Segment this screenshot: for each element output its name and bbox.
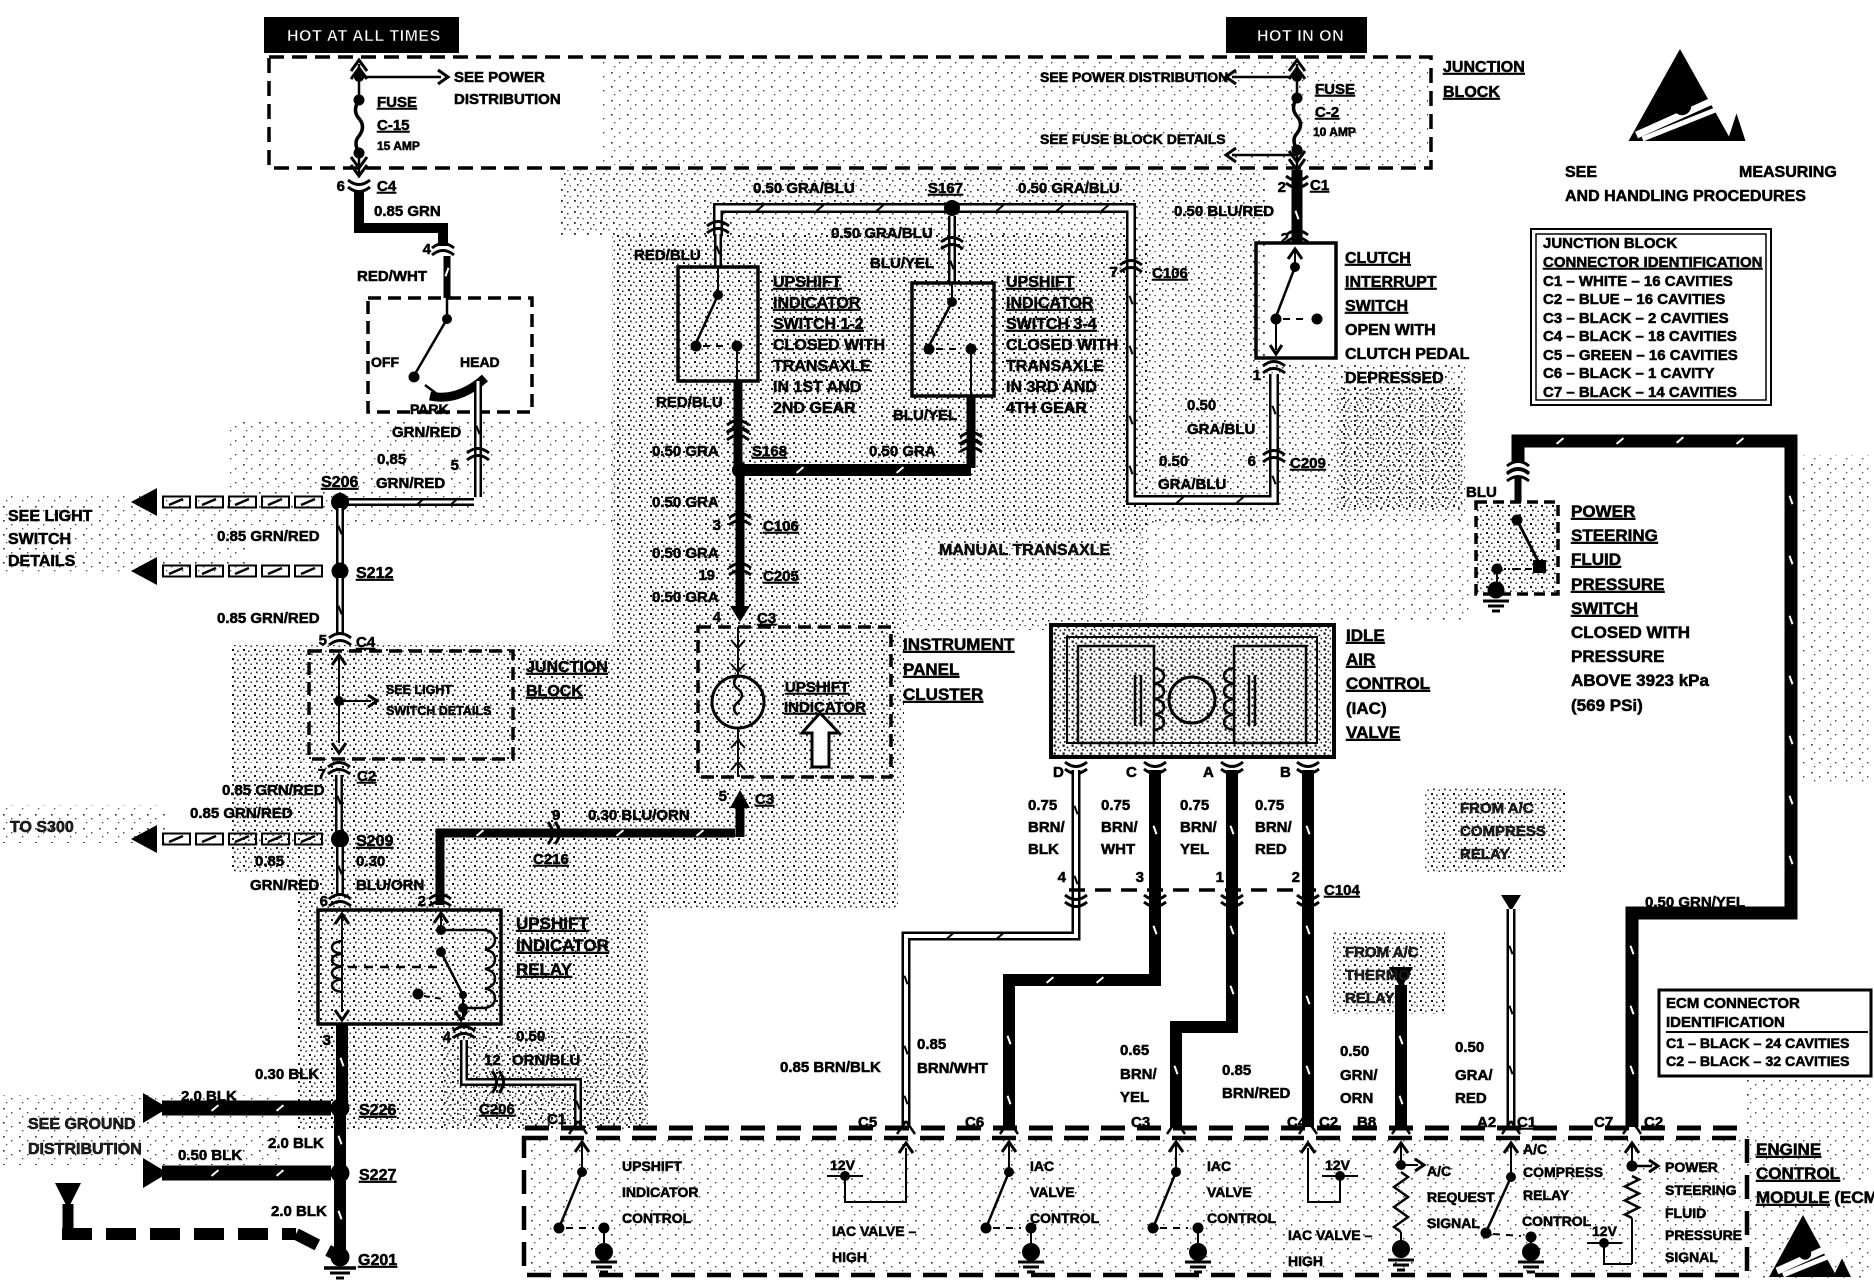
svg-text:C206: C206 bbox=[479, 1101, 515, 1118]
svg-text:JUNCTION: JUNCTION bbox=[526, 659, 608, 676]
svg-text:10 AMP: 10 AMP bbox=[1313, 125, 1356, 139]
svg-text:C106: C106 bbox=[763, 518, 799, 535]
svg-text:GRN/RED: GRN/RED bbox=[392, 424, 461, 441]
svg-text:SEE POWER DISTRIBUTION: SEE POWER DISTRIBUTION bbox=[1040, 69, 1228, 85]
svg-text:IN 1ST AND: IN 1ST AND bbox=[773, 379, 861, 396]
svg-text:0.85: 0.85 bbox=[917, 1036, 946, 1053]
svg-text:INSTRUMENT: INSTRUMENT bbox=[903, 635, 1015, 654]
svg-text:INTERRUPT: INTERRUPT bbox=[1345, 274, 1437, 291]
svg-text:C4 – BLACK – 18 CAVITIES: C4 – BLACK – 18 CAVITIES bbox=[1543, 328, 1737, 345]
svg-text:1: 1 bbox=[1216, 869, 1224, 886]
svg-text:2.0 BLK: 2.0 BLK bbox=[181, 1088, 237, 1105]
svg-text:UPSHIFT: UPSHIFT bbox=[785, 679, 849, 696]
svg-text:RED/BLU: RED/BLU bbox=[656, 394, 723, 411]
svg-text:HIGH: HIGH bbox=[832, 1249, 867, 1265]
svg-text:UPSHIFT: UPSHIFT bbox=[1006, 274, 1075, 291]
svg-text:0.50 GRA: 0.50 GRA bbox=[652, 589, 719, 606]
svg-text:BLU/ORN: BLU/ORN bbox=[356, 877, 424, 894]
svg-text:REQUEST: REQUEST bbox=[1427, 1189, 1495, 1205]
svg-text:SWITCH: SWITCH bbox=[8, 531, 71, 548]
svg-text:S226: S226 bbox=[359, 1102, 396, 1119]
svg-text:BRN/: BRN/ bbox=[1028, 819, 1065, 836]
svg-text:COMPRESS: COMPRESS bbox=[1523, 1164, 1603, 1180]
svg-text:IAC VALVE –: IAC VALVE – bbox=[1288, 1227, 1372, 1243]
svg-text:S209: S209 bbox=[356, 833, 393, 850]
svg-text:C5 – GREEN – 16 CAVITIES: C5 – GREEN – 16 CAVITIES bbox=[1543, 347, 1738, 364]
svg-text:INDICATOR: INDICATOR bbox=[516, 936, 609, 955]
svg-text:SIGNAL: SIGNAL bbox=[1427, 1215, 1480, 1231]
svg-text:C7 – BLACK – 14 CAVITIES: C7 – BLACK – 14 CAVITIES bbox=[1543, 384, 1737, 401]
svg-text:5: 5 bbox=[451, 457, 459, 474]
svg-text:SWITCH 3-4: SWITCH 3-4 bbox=[1006, 316, 1097, 333]
svg-text:0.50 GRA/BLU: 0.50 GRA/BLU bbox=[831, 225, 933, 242]
svg-text:C4: C4 bbox=[356, 634, 376, 651]
svg-text:HOT IN ON: HOT IN ON bbox=[1257, 28, 1344, 45]
svg-text:A/C: A/C bbox=[1427, 1163, 1451, 1179]
svg-text:ORN/BLU: ORN/BLU bbox=[512, 1052, 580, 1069]
svg-text:3: 3 bbox=[323, 1032, 331, 1049]
svg-text:HIGH: HIGH bbox=[1288, 1253, 1323, 1269]
svg-text:0.85 GRN/RED: 0.85 GRN/RED bbox=[217, 528, 320, 545]
svg-text:S167: S167 bbox=[928, 180, 963, 197]
svg-text:0.30 BLK: 0.30 BLK bbox=[255, 1066, 319, 1083]
svg-text:12: 12 bbox=[484, 1052, 501, 1069]
svg-text:INDICATOR: INDICATOR bbox=[622, 1184, 698, 1200]
svg-text:BRN/: BRN/ bbox=[1120, 1066, 1157, 1083]
svg-text:WHT: WHT bbox=[1101, 841, 1135, 858]
svg-text:0.75: 0.75 bbox=[1180, 797, 1209, 814]
svg-text:BLOCK: BLOCK bbox=[1443, 84, 1500, 101]
svg-text:C1: C1 bbox=[1310, 177, 1329, 194]
svg-text:C205: C205 bbox=[763, 568, 799, 585]
svg-text:0.50: 0.50 bbox=[1187, 397, 1216, 414]
svg-text:6: 6 bbox=[337, 178, 345, 195]
svg-text:IAC: IAC bbox=[1030, 1158, 1054, 1174]
svg-text:UPSHIFT: UPSHIFT bbox=[773, 274, 842, 291]
svg-text:2.0 BLK: 2.0 BLK bbox=[268, 1135, 324, 1152]
svg-text:S168: S168 bbox=[752, 443, 787, 460]
svg-text:STEERING: STEERING bbox=[1665, 1182, 1737, 1198]
svg-text:RED: RED bbox=[1455, 1090, 1487, 1107]
svg-text:C106: C106 bbox=[1152, 265, 1188, 282]
svg-text:0.50 GRA: 0.50 GRA bbox=[652, 494, 719, 511]
svg-text:RED: RED bbox=[1255, 841, 1287, 858]
svg-text:CONTROL: CONTROL bbox=[1346, 674, 1430, 693]
svg-text:C216: C216 bbox=[533, 851, 569, 868]
svg-text:C: C bbox=[1126, 764, 1137, 781]
svg-text:CONTROL: CONTROL bbox=[622, 1210, 692, 1226]
svg-text:IAC: IAC bbox=[1207, 1158, 1231, 1174]
svg-text:GRN/RED: GRN/RED bbox=[250, 877, 319, 894]
svg-text:IDLE: IDLE bbox=[1346, 626, 1385, 645]
svg-text:0.85 GRN/RED: 0.85 GRN/RED bbox=[222, 782, 325, 799]
svg-text:DISTRIBUTION: DISTRIBUTION bbox=[28, 1141, 142, 1158]
svg-text:2: 2 bbox=[1278, 179, 1286, 196]
svg-text:12V: 12V bbox=[1325, 1157, 1351, 1173]
svg-text:RELAY: RELAY bbox=[1523, 1187, 1570, 1203]
svg-text:C1: C1 bbox=[547, 1111, 566, 1128]
svg-text:6: 6 bbox=[320, 893, 328, 910]
svg-text:5: 5 bbox=[719, 788, 727, 805]
svg-text:CONTROL: CONTROL bbox=[1030, 1210, 1100, 1226]
svg-text:0.50 BLU/RED: 0.50 BLU/RED bbox=[1174, 203, 1274, 220]
svg-text:CLUTCH PEDAL: CLUTCH PEDAL bbox=[1345, 346, 1470, 363]
svg-text:0.85: 0.85 bbox=[255, 853, 284, 870]
svg-text:CONTROL: CONTROL bbox=[1207, 1210, 1277, 1226]
svg-text:YEL: YEL bbox=[1180, 841, 1209, 858]
svg-text:RELAY: RELAY bbox=[1345, 990, 1394, 1007]
svg-text:BLU: BLU bbox=[1466, 484, 1497, 501]
svg-text:2.0 BLK: 2.0 BLK bbox=[271, 1203, 327, 1220]
svg-text:CLUTCH: CLUTCH bbox=[1345, 250, 1411, 267]
svg-text:OFF: OFF bbox=[371, 354, 399, 370]
svg-text:C3: C3 bbox=[755, 791, 774, 808]
svg-text:VALVE: VALVE bbox=[1207, 1184, 1252, 1200]
svg-text:RED/WHT: RED/WHT bbox=[357, 268, 427, 285]
svg-text:FUSE: FUSE bbox=[1315, 81, 1355, 98]
svg-text:JUNCTION BLOCK: JUNCTION BLOCK bbox=[1543, 235, 1677, 252]
svg-text:0.85: 0.85 bbox=[1222, 1062, 1251, 1079]
svg-text:SIGNAL: SIGNAL bbox=[1665, 1249, 1718, 1265]
svg-text:UPSHIFT: UPSHIFT bbox=[622, 1158, 682, 1174]
svg-text:0.30: 0.30 bbox=[356, 853, 385, 870]
svg-text:0.50: 0.50 bbox=[1455, 1039, 1484, 1056]
svg-text:0.85 GRN: 0.85 GRN bbox=[374, 203, 441, 220]
svg-text:GRA/: GRA/ bbox=[1455, 1067, 1493, 1084]
svg-text:0.65: 0.65 bbox=[1120, 1042, 1149, 1059]
svg-text:0.50: 0.50 bbox=[1159, 453, 1188, 470]
svg-text:GRN/RED: GRN/RED bbox=[376, 475, 445, 492]
svg-text:C1 – BLACK – 24 CAVITIES: C1 – BLACK – 24 CAVITIES bbox=[1666, 1036, 1849, 1052]
svg-text:ENGINE: ENGINE bbox=[1756, 1140, 1821, 1159]
svg-text:0.75: 0.75 bbox=[1101, 797, 1130, 814]
svg-text:IDENTIFICATION: IDENTIFICATION bbox=[1666, 1014, 1785, 1031]
svg-text:SEE POWER: SEE POWER bbox=[454, 69, 545, 86]
svg-text:OPEN WITH: OPEN WITH bbox=[1345, 322, 1436, 339]
svg-text:0.50 GRA/BLU: 0.50 GRA/BLU bbox=[1018, 180, 1120, 197]
svg-text:POWER: POWER bbox=[1571, 502, 1635, 521]
svg-text:CONNECTOR IDENTIFICATION: CONNECTOR IDENTIFICATION bbox=[1543, 254, 1762, 271]
svg-text:DISTRIBUTION: DISTRIBUTION bbox=[454, 91, 561, 108]
svg-text:(569 PSi): (569 PSi) bbox=[1571, 696, 1643, 715]
svg-text:BLOCK: BLOCK bbox=[526, 683, 583, 700]
svg-text:B: B bbox=[1280, 764, 1291, 781]
svg-text:INDICATOR: INDICATOR bbox=[773, 295, 861, 312]
svg-text:4TH GEAR: 4TH GEAR bbox=[1006, 400, 1087, 417]
svg-text:12V: 12V bbox=[1592, 1223, 1618, 1239]
svg-text:SEE GROUND: SEE GROUND bbox=[28, 1116, 136, 1133]
svg-text:RED/BLU: RED/BLU bbox=[634, 247, 701, 264]
svg-text:0.85 BRN/BLK: 0.85 BRN/BLK bbox=[780, 1059, 881, 1076]
svg-text:1: 1 bbox=[1253, 367, 1261, 384]
svg-text:FLUID: FLUID bbox=[1665, 1205, 1706, 1221]
svg-text:2ND GEAR: 2ND GEAR bbox=[773, 400, 856, 417]
svg-text:BRN/: BRN/ bbox=[1180, 819, 1217, 836]
svg-text:PARK: PARK bbox=[410, 401, 449, 417]
svg-text:BRN/RED: BRN/RED bbox=[1222, 1085, 1291, 1102]
svg-text:7: 7 bbox=[318, 766, 326, 783]
svg-text:BLU/YEL: BLU/YEL bbox=[893, 407, 957, 424]
svg-text:PANEL: PANEL bbox=[903, 660, 959, 679]
svg-text:GRA/BLU: GRA/BLU bbox=[1187, 421, 1255, 438]
svg-text:12V: 12V bbox=[830, 1157, 856, 1173]
svg-text:19: 19 bbox=[698, 567, 715, 584]
svg-text:VALVE: VALVE bbox=[1030, 1184, 1075, 1200]
svg-text:MEASURING: MEASURING bbox=[1739, 164, 1837, 181]
svg-text:4: 4 bbox=[443, 1029, 452, 1046]
svg-text:HOT AT ALL TIMES: HOT AT ALL TIMES bbox=[287, 28, 441, 45]
svg-text:9: 9 bbox=[552, 807, 560, 824]
svg-text:CONTROL: CONTROL bbox=[1522, 1213, 1592, 1229]
svg-text:0.50 GRN/YEL: 0.50 GRN/YEL bbox=[1645, 894, 1745, 911]
svg-text:C209: C209 bbox=[1290, 455, 1326, 472]
svg-text:7: 7 bbox=[1110, 264, 1118, 281]
svg-text:0.50 GRA/BLU: 0.50 GRA/BLU bbox=[753, 180, 855, 197]
svg-text:UPSHIFT: UPSHIFT bbox=[516, 914, 589, 933]
svg-text:C2: C2 bbox=[357, 768, 376, 785]
svg-text:FROM A/C: FROM A/C bbox=[1460, 800, 1534, 817]
svg-text:GRN/: GRN/ bbox=[1340, 1067, 1378, 1084]
svg-text:G201: G201 bbox=[358, 1252, 397, 1269]
svg-text:0.75: 0.75 bbox=[1255, 797, 1284, 814]
svg-text:A: A bbox=[1203, 764, 1214, 781]
svg-text:CLOSED WITH: CLOSED WITH bbox=[1006, 337, 1118, 354]
svg-text:0.75: 0.75 bbox=[1028, 797, 1057, 814]
svg-text:JUNCTION: JUNCTION bbox=[1443, 59, 1525, 76]
svg-text:2: 2 bbox=[1292, 869, 1300, 886]
svg-text:BLK: BLK bbox=[1028, 841, 1059, 858]
svg-text:SEE: SEE bbox=[1565, 164, 1597, 181]
svg-text:4: 4 bbox=[1058, 869, 1067, 886]
svg-text:HEAD: HEAD bbox=[460, 354, 500, 370]
svg-text:RELAY: RELAY bbox=[1460, 846, 1509, 863]
svg-text:PRESSURE: PRESSURE bbox=[1571, 647, 1665, 666]
svg-text:POWER: POWER bbox=[1665, 1159, 1718, 1175]
svg-text:2: 2 bbox=[418, 893, 426, 910]
svg-text:DETAILS: DETAILS bbox=[8, 553, 76, 570]
svg-text:CLOSED WITH: CLOSED WITH bbox=[1571, 623, 1690, 642]
svg-text:SEE FUSE BLOCK DETAILS: SEE FUSE BLOCK DETAILS bbox=[1040, 131, 1226, 147]
svg-text:15 AMP: 15 AMP bbox=[377, 139, 420, 153]
svg-text:BRN/WHT: BRN/WHT bbox=[917, 1060, 988, 1077]
svg-text:C6 – BLACK – 1 CAVITY: C6 – BLACK – 1 CAVITY bbox=[1543, 365, 1714, 382]
svg-text:C4: C4 bbox=[377, 178, 397, 195]
svg-text:CONTROL: CONTROL bbox=[1756, 1164, 1840, 1183]
svg-text:C3 – BLACK – 2 CAVITIES: C3 – BLACK – 2 CAVITIES bbox=[1543, 310, 1729, 327]
svg-text:TRANSAXLE: TRANSAXLE bbox=[773, 358, 871, 375]
svg-text:SWITCH: SWITCH bbox=[1345, 298, 1408, 315]
svg-text:S212: S212 bbox=[356, 565, 393, 582]
svg-text:SWITCH: SWITCH bbox=[1571, 599, 1638, 618]
svg-text:MODULE (ECM): MODULE (ECM) bbox=[1756, 1188, 1874, 1207]
svg-text:0.30 BLU/ORN: 0.30 BLU/ORN bbox=[588, 807, 690, 824]
svg-text:SEE LIGHT: SEE LIGHT bbox=[386, 683, 452, 697]
svg-text:FLUID: FLUID bbox=[1571, 550, 1621, 569]
svg-text:C2 – BLACK – 32 CAVITIES: C2 – BLACK – 32 CAVITIES bbox=[1666, 1054, 1849, 1070]
svg-text:6: 6 bbox=[1248, 453, 1256, 470]
svg-text:0.50 GRA: 0.50 GRA bbox=[652, 443, 719, 460]
svg-text:AIR: AIR bbox=[1346, 650, 1375, 669]
svg-text:YEL: YEL bbox=[1120, 1089, 1149, 1106]
svg-text:C-2: C-2 bbox=[1315, 104, 1339, 121]
svg-text:S206: S206 bbox=[321, 474, 358, 491]
svg-text:FUSE: FUSE bbox=[377, 94, 417, 111]
svg-text:(IAC): (IAC) bbox=[1346, 699, 1387, 718]
svg-text:CLUSTER: CLUSTER bbox=[903, 685, 983, 704]
svg-text:BRN/: BRN/ bbox=[1101, 819, 1138, 836]
svg-text:CLOSED WITH: CLOSED WITH bbox=[773, 337, 885, 354]
svg-text:D: D bbox=[1053, 764, 1064, 781]
svg-text:TO S300: TO S300 bbox=[10, 819, 74, 836]
svg-text:PRESSURE: PRESSURE bbox=[1571, 575, 1665, 594]
svg-text:ECM CONNECTOR: ECM CONNECTOR bbox=[1666, 995, 1800, 1012]
svg-text:S227: S227 bbox=[359, 1167, 396, 1184]
svg-text:0.85 GRN/RED: 0.85 GRN/RED bbox=[217, 610, 320, 627]
svg-text:BLU/YEL: BLU/YEL bbox=[870, 255, 934, 272]
svg-text:VALVE: VALVE bbox=[1346, 723, 1400, 742]
svg-text:INDICATOR: INDICATOR bbox=[1006, 295, 1094, 312]
svg-text:ORN: ORN bbox=[1340, 1090, 1373, 1107]
svg-text:SWITCH DETAILS: SWITCH DETAILS bbox=[386, 704, 491, 718]
svg-text:0.50: 0.50 bbox=[1340, 1043, 1369, 1060]
svg-text:BRN/: BRN/ bbox=[1255, 819, 1292, 836]
svg-text:0.50 GRA: 0.50 GRA bbox=[652, 545, 719, 562]
svg-text:SEE LIGHT: SEE LIGHT bbox=[8, 508, 93, 525]
svg-text:0.85: 0.85 bbox=[377, 451, 406, 468]
svg-text:RELAY: RELAY bbox=[516, 960, 573, 979]
svg-text:TRANSAXLE: TRANSAXLE bbox=[1006, 358, 1104, 375]
svg-text:0.85 GRN/RED: 0.85 GRN/RED bbox=[190, 805, 293, 822]
svg-text:C1 – WHITE – 16 CAVITIES: C1 – WHITE – 16 CAVITIES bbox=[1543, 273, 1733, 290]
svg-text:0.50 GRA: 0.50 GRA bbox=[869, 443, 936, 460]
svg-text:0.50: 0.50 bbox=[516, 1028, 545, 1045]
svg-text:ABOVE 3923 kPa: ABOVE 3923 kPa bbox=[1571, 671, 1710, 690]
svg-text:STEERING: STEERING bbox=[1571, 526, 1658, 545]
svg-text:IAC VALVE –: IAC VALVE – bbox=[832, 1223, 916, 1239]
svg-text:C2 – BLUE – 16 CAVITIES: C2 – BLUE – 16 CAVITIES bbox=[1543, 291, 1725, 308]
svg-text:GRA/BLU: GRA/BLU bbox=[1158, 476, 1226, 493]
svg-text:PRESSURE: PRESSURE bbox=[1665, 1227, 1742, 1243]
svg-text:FROM A/C: FROM A/C bbox=[1345, 944, 1419, 961]
svg-text:A/C: A/C bbox=[1523, 1141, 1547, 1157]
svg-text:MANUAL TRANSAXLE: MANUAL TRANSAXLE bbox=[939, 542, 1111, 559]
svg-text:C-15: C-15 bbox=[377, 117, 410, 134]
svg-text:C104: C104 bbox=[1324, 882, 1361, 899]
svg-text:4: 4 bbox=[713, 609, 722, 626]
svg-text:3: 3 bbox=[1136, 869, 1144, 886]
svg-text:DEPRESSED: DEPRESSED bbox=[1345, 370, 1444, 387]
svg-text:SWITCH 1-2: SWITCH 1-2 bbox=[773, 316, 864, 333]
svg-text:IN 3RD AND: IN 3RD AND bbox=[1006, 379, 1097, 396]
svg-text:INDICATOR: INDICATOR bbox=[784, 699, 866, 716]
svg-text:AND HANDLING PROCEDURES: AND HANDLING PROCEDURES bbox=[1565, 188, 1806, 205]
svg-text:THERMO: THERMO bbox=[1345, 967, 1410, 984]
svg-text:COMPRESS: COMPRESS bbox=[1460, 823, 1546, 840]
svg-text:5: 5 bbox=[319, 632, 327, 649]
svg-text:C3: C3 bbox=[757, 610, 776, 627]
svg-text:4: 4 bbox=[423, 241, 432, 258]
svg-text:0.50 BLK: 0.50 BLK bbox=[178, 1147, 242, 1164]
svg-text:3: 3 bbox=[713, 517, 721, 534]
